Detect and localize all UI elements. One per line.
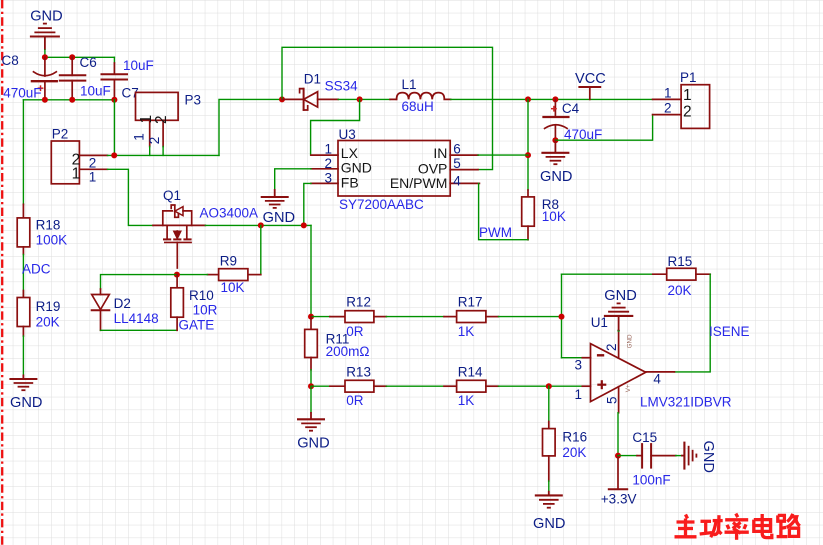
wire R16 branch down <box>548 386 550 421</box>
svg-text:C6: C6 <box>80 55 97 70</box>
svg-text:20K: 20K <box>36 314 60 329</box>
label C4 <box>562 101 580 116</box>
label U3 <box>339 127 356 142</box>
net label GND (under R16) <box>533 516 565 532</box>
title text 主功率电路 <box>675 514 800 540</box>
op-amp pin1 stub <box>582 385 590 387</box>
ground symbol (bottom-left) <box>9 375 37 391</box>
op-amp pin5 line <box>618 387 620 413</box>
U3 pin3 number <box>325 170 333 185</box>
junction 3.3V node <box>615 453 621 459</box>
svg-text:5: 5 <box>605 396 620 404</box>
wire R14 to opamp plus <box>499 385 583 387</box>
svg-text:EN/PWM: EN/PWM <box>390 175 448 191</box>
wire gate node to D2 <box>101 275 177 289</box>
label D1 <box>304 72 321 87</box>
svg-text:OVP: OVP <box>418 161 448 177</box>
svg-text:R13: R13 <box>346 364 371 379</box>
junction gate node <box>174 272 180 278</box>
svg-text:+3.3V: +3.3V <box>601 492 637 507</box>
svg-text:2: 2 <box>664 101 672 116</box>
svg-text:3: 3 <box>325 170 333 185</box>
C4 polarity plus <box>551 106 557 112</box>
value LL4148 <box>114 311 159 326</box>
resistor R15 <box>653 268 710 280</box>
label R14 <box>458 364 483 379</box>
svg-text:AO3400A: AO3400A <box>200 205 259 220</box>
value 20K (R15) <box>668 283 692 298</box>
svg-text:GND: GND <box>30 9 62 25</box>
value 10uF (C7) <box>123 58 154 73</box>
svg-text:R15: R15 <box>668 254 693 269</box>
svg-text:2: 2 <box>683 103 692 120</box>
P3 pin name 2 <box>153 115 170 124</box>
value 0R (R13) <box>346 393 364 408</box>
svg-text:LMV321IDBVR: LMV321IDBVR <box>640 395 732 410</box>
wire left branch down to R18 <box>22 100 24 205</box>
wire U3 GND pin to ground <box>275 169 311 189</box>
label R13 <box>346 364 371 379</box>
U3 pin name LX <box>341 145 359 161</box>
label R19 <box>36 299 61 314</box>
net label GND (bottom-left) <box>10 395 42 411</box>
op-amp pin5 number <box>605 396 620 404</box>
wire opamp pin5 down to 3.3V node <box>617 413 619 456</box>
inductor L1 <box>390 93 451 100</box>
svg-text:5: 5 <box>453 156 461 171</box>
U3 pin4 number <box>453 174 461 189</box>
svg-text:PWM: PWM <box>479 225 512 240</box>
value 20K (R19) <box>36 314 60 329</box>
wire R9 right vertical <box>260 225 262 274</box>
P2 pin name 1 <box>72 165 81 182</box>
svg-text:20K: 20K <box>668 283 692 298</box>
label P1 <box>680 70 697 85</box>
U3 pin name EN/PWM <box>390 175 448 191</box>
resistor R9 <box>207 269 260 281</box>
value 470uF (C4) <box>564 127 602 142</box>
junction C4 node <box>552 96 558 102</box>
junction IN node <box>525 152 531 158</box>
U3 pin 1 LX <box>311 154 338 156</box>
svg-text:LL4148: LL4148 <box>114 311 159 326</box>
svg-text:2: 2 <box>147 137 162 145</box>
sheet border dash-dot line <box>1 0 3 545</box>
label R8 <box>542 197 559 212</box>
wire C15 to side ground <box>676 455 681 457</box>
svg-text:4: 4 <box>453 174 461 189</box>
svg-text:10K: 10K <box>542 209 566 224</box>
svg-text:68uH: 68uH <box>402 99 434 114</box>
U3 pin5 number <box>453 156 461 171</box>
svg-text:100nF: 100nF <box>632 472 670 487</box>
svg-text:IN: IN <box>433 145 447 161</box>
svg-text:R10: R10 <box>189 288 214 303</box>
svg-text:6: 6 <box>453 141 461 156</box>
connector P2 <box>51 141 107 184</box>
net label GND (under R11) <box>297 436 329 452</box>
wire Q1 drain rail <box>205 224 311 226</box>
svg-text:V+: V+ <box>625 384 632 392</box>
junction inv node <box>559 314 565 320</box>
P1 pin number 2 <box>664 101 672 116</box>
capacitor C4 (polarized 470uF) <box>544 99 569 140</box>
wire feedback top to R15 <box>562 273 653 275</box>
junction VCC node <box>525 96 531 102</box>
U3 pin 5 OVP <box>450 169 478 171</box>
diode D1 SS34 schottky <box>282 89 338 110</box>
op-amp pin4 stub <box>646 371 675 373</box>
net label +3.3V <box>601 492 637 507</box>
U3 pin1 number <box>325 141 333 156</box>
svg-text:P2: P2 <box>52 126 69 141</box>
wire top cap rail <box>45 56 115 58</box>
value 10R <box>193 302 218 317</box>
svg-text:R18: R18 <box>36 218 61 233</box>
net label ADC <box>22 261 51 276</box>
junction node C6 top <box>69 54 75 60</box>
diode D2 LL4148 <box>92 289 110 330</box>
junction C8 bottom <box>42 97 48 103</box>
wire R8 to EN/PWM <box>479 183 528 239</box>
junction R16 node <box>546 383 552 389</box>
op-amp plus sign <box>597 380 606 389</box>
wire R11 bottom to ground <box>310 386 312 412</box>
svg-text:U3: U3 <box>339 127 356 142</box>
svg-text:100K: 100K <box>36 233 68 248</box>
svg-text:R12: R12 <box>346 295 371 310</box>
junction C4 bottom <box>552 137 558 143</box>
wire R17 to inv node <box>499 316 562 318</box>
wire C7 node down to P2 node <box>113 100 115 156</box>
svg-text:1: 1 <box>664 85 672 100</box>
junction R13 node <box>308 383 314 389</box>
svg-text:C15: C15 <box>632 430 657 445</box>
wire gnd stem to node <box>44 50 46 57</box>
resistor R17 <box>444 311 499 323</box>
label R18 <box>36 218 61 233</box>
IC U3 SY7200AABC body <box>338 141 450 197</box>
svg-text:Q1: Q1 <box>163 188 181 203</box>
power flag +3.3V <box>609 456 627 490</box>
svg-text:2: 2 <box>153 115 170 124</box>
svg-text:10uF: 10uF <box>80 84 111 99</box>
P2 pin number 1 <box>89 169 97 184</box>
ground symbol (C4) <box>541 140 569 164</box>
value 1K (R17) <box>458 324 475 339</box>
net label GATE <box>179 318 215 333</box>
wire R18 to R19 <box>22 255 24 298</box>
ground symbol (under R11) <box>297 412 325 431</box>
ground symbol (C15, sideways) <box>681 442 696 470</box>
wire L1 to VCC rail <box>451 98 653 100</box>
power flag VCC <box>579 87 600 99</box>
value 470uF <box>3 85 41 100</box>
wire top OVP loop <box>282 47 493 169</box>
U3 pin 6 IN <box>450 154 478 156</box>
label P2 <box>52 126 69 141</box>
wire R16 to ground <box>548 481 550 491</box>
svg-text:D2: D2 <box>114 296 131 311</box>
svg-text:SS34: SS34 <box>325 79 359 94</box>
P1 pin name 2 <box>683 103 692 120</box>
wire P3.2 down <box>162 147 164 156</box>
wire P2.1 to Q1 source <box>108 169 154 225</box>
svg-text:1: 1 <box>72 165 81 182</box>
wire LX route to U3 pin1 <box>311 99 360 155</box>
op-amp pin5 name V+ <box>625 384 632 392</box>
svg-text:C4: C4 <box>562 101 580 116</box>
value SS34 <box>325 79 359 94</box>
svg-text:U1: U1 <box>591 315 608 330</box>
svg-text:C8: C8 <box>2 53 19 68</box>
label R9 <box>220 253 237 268</box>
svg-text:R19: R19 <box>36 299 61 314</box>
label R17 <box>458 295 483 310</box>
label C7 <box>122 86 139 101</box>
svg-text:GND: GND <box>297 436 329 452</box>
P1 pin name 1 <box>683 87 692 104</box>
op-amp pin3 number <box>575 357 583 372</box>
svg-text:1: 1 <box>89 169 97 184</box>
U3 pin2 number <box>325 156 333 171</box>
svg-text:10uF: 10uF <box>123 58 154 73</box>
wire P2.2 node rail <box>108 154 220 156</box>
resistor R18 <box>17 204 30 254</box>
junction P2.2 <box>111 152 117 158</box>
svg-text:4: 4 <box>653 371 661 386</box>
wire R12 to R17 <box>386 316 444 318</box>
wire bottom cap rail <box>23 99 114 101</box>
capacitor C8 (polarized 470uF) <box>32 57 57 100</box>
svg-text:1K: 1K <box>458 393 475 408</box>
capacitor C15 <box>618 444 676 468</box>
net label VCC <box>575 71 606 87</box>
P3 pin number 1 <box>131 133 146 141</box>
svg-text:P1: P1 <box>680 70 697 85</box>
wire R13 to R14 <box>386 385 444 387</box>
U3 pin 4 EN/PWM <box>450 182 479 184</box>
U3 pin 2 GND <box>311 168 338 170</box>
svg-text:2: 2 <box>325 156 333 171</box>
U3 pin name FB <box>341 174 359 190</box>
op-amp minus sign <box>597 354 604 356</box>
capacitor C6 <box>60 57 86 100</box>
connector P1 <box>653 85 710 129</box>
value 10K (R8) <box>542 209 566 224</box>
wire feedback vertical <box>561 274 563 358</box>
P1 pin number 1 <box>664 85 672 100</box>
svg-text:2: 2 <box>89 155 97 170</box>
value SY7200AABC <box>339 197 424 212</box>
svg-text:D1: D1 <box>304 72 321 87</box>
U3 pin name GND <box>341 160 372 176</box>
label P3 <box>185 93 202 108</box>
op-amp pin1 number <box>575 387 583 402</box>
svg-text:R9: R9 <box>220 253 237 268</box>
net label GND (C4) <box>540 169 572 185</box>
wire inv node to opamp pin3 <box>562 357 583 359</box>
value 10uF (C6) <box>80 84 111 99</box>
net label PWM <box>479 225 512 240</box>
wire IN pin to node <box>478 154 528 156</box>
svg-text:1: 1 <box>575 387 583 402</box>
label R10 <box>189 288 214 303</box>
U3 pin6 number <box>453 141 461 156</box>
svg-text:R14: R14 <box>458 364 483 379</box>
junction node C8 top <box>42 54 48 60</box>
wire R9 to gate node <box>177 274 208 276</box>
wire P3.1 down <box>149 147 151 156</box>
P2 pin name 2 <box>72 152 81 169</box>
svg-text:GND: GND <box>263 210 295 226</box>
label C6 <box>80 55 97 70</box>
wire VCC vertical to IN <box>527 99 529 190</box>
value LMV321IDBVR <box>640 395 732 410</box>
net label GND (above U1) <box>604 288 636 304</box>
value 200mohm <box>326 344 370 359</box>
svg-text:GND: GND <box>627 334 634 348</box>
label C8 <box>2 53 19 68</box>
wire D2 to R10 bottom (GATE net) <box>101 329 177 331</box>
P2 pin number 2 <box>89 155 97 170</box>
svg-text:GND: GND <box>540 169 572 185</box>
value 10K (R9) <box>221 280 245 295</box>
wire drain rail down to R12 <box>310 225 312 316</box>
svg-text:0R: 0R <box>346 393 364 408</box>
svg-text:GND: GND <box>341 160 372 176</box>
svg-text:GND: GND <box>700 441 716 473</box>
resistor R12 <box>311 311 386 323</box>
capacitor C7 <box>102 63 128 100</box>
label C15 <box>632 430 657 445</box>
value 1K (R14) <box>458 393 475 408</box>
svg-text:L1: L1 <box>402 77 417 92</box>
junction R9 node <box>258 222 264 228</box>
ground symbol (above U1, inverted) <box>604 303 633 330</box>
svg-text:ADC: ADC <box>22 261 51 276</box>
connector P3 <box>136 92 179 146</box>
svg-text:P3: P3 <box>185 93 202 108</box>
op-amp pin2 name GND <box>627 334 634 348</box>
resistor R16 <box>543 422 556 482</box>
resistor R8 <box>522 190 535 240</box>
ground symbol (top-left, inverted) <box>30 24 60 50</box>
wire battery rail up to D1 <box>219 99 282 155</box>
op-amp U1 triangle <box>591 344 646 402</box>
ground symbol (under U3) <box>261 189 289 208</box>
svg-text:VCC: VCC <box>575 71 606 87</box>
svg-text:200mΩ: 200mΩ <box>326 344 370 359</box>
wire D1 to L1 node <box>338 98 390 100</box>
label R12 <box>346 295 371 310</box>
svg-text:GND: GND <box>533 516 565 532</box>
svg-text:ISENE: ISENE <box>709 324 750 339</box>
svg-text:10K: 10K <box>221 280 245 295</box>
svg-text:1: 1 <box>131 133 146 141</box>
value 68uH <box>402 99 434 114</box>
label D2 <box>114 296 131 311</box>
wire R19 to ground <box>22 336 24 375</box>
net label ISENE <box>709 324 750 339</box>
op-amp pin3 stub <box>582 357 590 359</box>
net label GND (under U3) <box>263 210 295 226</box>
wire U3 FB to gate rail <box>304 183 311 225</box>
transistor Q1 AO3400A <box>153 205 205 268</box>
junction C6 bottom <box>69 97 75 103</box>
svg-text:SY7200AABC: SY7200AABC <box>339 197 424 212</box>
svg-text:2: 2 <box>604 343 619 351</box>
U3 pin name OVP <box>418 161 448 177</box>
svg-text:20K: 20K <box>562 445 586 460</box>
junction C7 bottom <box>111 97 117 103</box>
U3 pin 3 FB <box>311 182 338 184</box>
resistor R11 <box>305 317 318 387</box>
op-amp pin4 number <box>653 371 661 386</box>
P3 pin number 2 <box>147 137 162 145</box>
svg-text:1: 1 <box>325 141 333 156</box>
svg-text:FB: FB <box>341 174 359 190</box>
label R16 <box>562 430 587 445</box>
label L1 <box>402 77 417 92</box>
value 20K (R16) <box>562 445 586 460</box>
svg-text:1K: 1K <box>458 324 475 339</box>
value AO3400A <box>200 205 259 220</box>
C8 polarity plus <box>38 85 44 91</box>
svg-text:R17: R17 <box>458 295 483 310</box>
op-amp pin2 line <box>618 331 620 359</box>
resistor R10 <box>171 275 184 331</box>
label R11 <box>326 331 350 346</box>
op-amp pin2 dot <box>617 329 620 332</box>
wire C7 drop <box>113 57 115 63</box>
svg-text:1: 1 <box>683 87 692 104</box>
P3 pin name 1 <box>138 115 155 124</box>
net label GND (C15, rotated) <box>700 441 716 473</box>
junction D1 node <box>279 96 285 102</box>
label Q1 <box>163 188 181 203</box>
value 0R (R12) <box>346 324 364 339</box>
junction R12 node <box>308 314 314 320</box>
svg-text:470uF: 470uF <box>3 85 41 100</box>
svg-text:GND: GND <box>10 395 42 411</box>
svg-text:GND: GND <box>604 288 636 304</box>
svg-text:10R: 10R <box>193 302 218 317</box>
resistor R19 <box>17 291 30 337</box>
svg-text:R16: R16 <box>562 430 587 445</box>
junction FB node <box>301 222 307 228</box>
junction LX node <box>357 96 363 102</box>
ground symbol (under R16) <box>535 491 563 508</box>
svg-text:GATE: GATE <box>179 318 215 333</box>
svg-text:3: 3 <box>575 357 583 372</box>
resistor R13 <box>311 380 386 392</box>
label U1 <box>591 315 608 330</box>
net label GND (top-left) <box>30 9 62 25</box>
resistor R14 <box>444 380 499 392</box>
label R15 <box>668 254 693 269</box>
wire R15 to output (ISENE) <box>674 274 710 372</box>
U3 pin name IN <box>433 145 447 161</box>
wire C4 bottom to P1.2 <box>555 115 652 141</box>
value 100nF <box>632 472 670 487</box>
value 100K <box>36 233 68 248</box>
op-amp pin2 number <box>604 343 619 351</box>
